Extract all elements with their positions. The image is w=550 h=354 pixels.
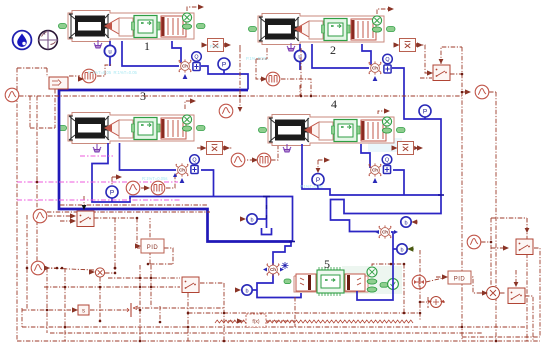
net switch2 top [526,218,528,232]
net mult2 io [478,292,506,294]
net psrc1 out [69,65,112,76]
net v30 [30,89,55,128]
net v47 [46,268,48,333]
magenta shaft line y200 [17,199,180,201]
net v527 [526,218,528,341]
net xy box io [228,320,295,322]
junction ticks on blue lines [263,195,444,242]
net long y96 [19,95,462,97]
net v37 [36,96,38,268]
multiplier2 circle [487,287,500,300]
unit 5 double-acting cylinder [284,267,368,296]
svg-text:5: 5 [324,257,330,271]
wire u1 stem [109,41,111,66]
net v140 [139,265,141,341]
P1 pressure gauge [218,58,230,70]
u2 sensor [294,50,305,61]
net unit4 top arrow [378,111,388,114]
net psrc2 out [281,79,311,96]
wire unit3 outlet B [120,143,177,170]
divider cluster circle [428,297,444,308]
net switch3 right [525,296,533,341]
PID1 controller [135,239,164,253]
wire b5 stub [253,289,257,291]
plot/cross icon [38,31,58,50]
net mult out [105,218,115,273]
svg-text:u: u [108,50,111,56]
net unit3 top arrow [185,101,194,109]
wire unit4 flow to node [393,170,404,195]
red arrows on signal lines [198,4,204,9]
highlight tint unit4 right [368,138,402,152]
net swbox4 right [200,282,224,284]
net v462 [461,47,463,341]
Ch1 orifice [178,59,192,72]
piecewise source pw1 [82,69,96,83]
net v224 [223,283,225,341]
svg-text:b: b [245,289,248,295]
net switch2 right [462,248,540,337]
wire Ch6 to unit5 right port [357,232,393,300]
wire unit3 flow to node [201,170,214,197]
net v420 [419,250,421,321]
net xbar1 io [239,45,241,111]
b6 sensor [401,217,411,227]
Q1 sensor stack [192,52,202,71]
svg-text:P.1%: P.1% [210,44,220,49]
net divider cluster [420,297,445,308]
magenta shaft line y182 [17,181,178,183]
net v100 [99,277,101,321]
waveform source ws2 [31,261,45,275]
piecewise source pw4 [257,153,271,167]
net psrc2 feed [256,48,267,79]
Ch4 orifice [368,163,382,176]
sawtooth segment [215,320,413,323]
b3 arrow [240,216,246,221]
wire unit2 flow down right [331,68,442,232]
svg-text:b: b [400,248,403,254]
unit5 attach pills [367,279,377,284]
net switch3 top [515,270,517,286]
net v22 [21,308,23,327]
wire unit3 outlet A [92,143,293,242]
svg-text:PID: PID [147,245,159,251]
svg-text:P.1%..R1%..: P.1%..R1%.. [246,56,269,61]
net switch1 top [441,47,462,64]
svg-text:b: b [250,218,253,224]
waveform source ws1 [33,209,47,223]
net bottom y333 [50,332,483,334]
switch1 relay [433,65,450,81]
net v496 [495,92,497,341]
unit5 speed sensor circle [388,279,399,290]
svg-text:P:1%T=0.05 R:1%T=0.05: P:1%T=0.05 R:1%T=0.05 [88,70,138,75]
b4 sensor [397,244,407,254]
wire u2 stem [299,44,301,70]
torque source circle [412,275,426,289]
net unit5 attach row y264 [372,264,404,313]
switch4 relay [182,277,199,293]
net bottom y327 [22,326,527,328]
unit 2 compressor [249,14,396,45]
b3 sensor [247,214,257,224]
net P3 probe [112,177,120,185]
net v17 left boundary [16,68,18,341]
net P4 probe [318,160,328,172]
waveform source ws0 top-left [5,88,19,102]
multiplier circle [95,268,104,277]
wire P1 stem [223,70,225,74]
net unit1 top arrow [187,7,202,11]
net unit2 motor tap [300,48,302,96]
net mid bundle y205 [60,204,207,206]
b5 sensor [242,285,252,295]
net unit2 top arrow [377,9,392,14]
Ch3 orifice [175,163,189,176]
highlight tint behind unit5 right attachments [342,266,402,294]
PID2 controller [442,271,471,284]
unit 4 compressor [259,115,406,146]
net box0 feed [17,68,47,77]
wire Ch5 to unit5 bottom [257,274,301,298]
net xbar2 to switch1 [416,45,431,73]
wire b4 stub [393,248,397,250]
tank cup [262,228,272,235]
xbar4 transmitter [392,142,418,155]
Ch5 orifice feed of unit5 [266,263,280,276]
svg-text:f(x): f(x) [252,319,260,325]
piecewise source pw2 [266,72,280,86]
net sbox row [22,308,224,310]
net bottom y341 [17,340,540,342]
Q2 sensor stack [383,54,393,73]
b4 arrow [408,247,414,251]
piecewise source pw3 [151,181,165,195]
unit 1 compressor [59,11,206,42]
blue arrow under Ch1 [183,74,188,79]
svg-text:P: P [423,109,427,116]
net switch1 left-lower [420,77,432,79]
net v188 [187,293,189,341]
b6 arrow [412,220,418,224]
svg-text:s: s [82,309,85,315]
P4 pressure gauge [312,174,324,186]
svg-text:4: 4 [331,97,337,111]
svg-text:PID: PID [454,276,466,282]
wire unit1 outlet B [172,41,181,63]
waveform source ws4a [231,153,245,167]
waveform source ws6 right [467,235,481,249]
fluid properties icon [13,31,32,50]
switch3 relay [508,288,525,304]
wire unit1 flow to node [201,66,248,90]
ground tank unit3 [93,144,101,152]
blue arrow under Ch4 [373,178,378,183]
b5 arrow [235,287,241,292]
net switch0 top [83,196,85,210]
Ch2 orifice [368,61,382,74]
wire feed unit5 left [273,242,291,266]
Ch6 orifice right line [378,225,392,238]
lever block [124,303,138,317]
down arrow net ends [238,107,243,112]
svg-text:P: P [110,190,114,197]
net ws0 row y216 [48,216,137,248]
net unit4 sig v [299,85,301,96]
svg-text:b: b [404,221,407,227]
signal box0 valve-command [49,77,68,89]
ground tank unit4 [283,144,291,152]
ground tank unit1 [94,40,102,48]
net switch1 right [450,73,462,75]
wire P4 stem [317,186,319,189]
net v151 [150,265,152,307]
net h287 [44,286,180,288]
P2 pressure gauge [419,105,431,117]
waveform source ws5 right [475,85,489,99]
wire vent branch [266,197,268,229]
svg-text:P: P [222,62,226,69]
net v165 [159,306,161,322]
net bottom y313 [188,312,420,314]
xbar2 transmitter [394,39,420,52]
net switch2 left [491,247,508,249]
net xbar4 io [416,147,421,149]
net h278 [108,277,180,279]
xy function box dashed [246,314,266,327]
wire P3 stem [111,198,113,202]
net v65 [64,268,66,341]
integrator s box [78,305,89,315]
net mid bundle y212 [38,211,210,213]
net torque to pid2 [426,278,443,282]
net v295 [294,297,296,327]
u1 sensor [104,45,115,56]
wire unit2 outlet A [312,44,369,68]
net xbar3 io [197,147,232,149]
wire unit4 outlet B [361,144,370,168]
wire unit4 outlet A [302,144,441,195]
net ws6 out [481,241,491,243]
svg-text:P: P [316,177,320,184]
blue star arrows near Ch5/Ch6 [263,268,267,272]
blue arrow under Ch3 [180,178,185,183]
cyan annotation texts [88,44,323,189]
xbar3 transmitter [201,142,227,155]
Q3 sensor stack [190,155,200,174]
switch0 relay [77,211,94,227]
svg-text:1: 1 [144,39,150,53]
net ws5 io [462,91,496,93]
blue asterisk near 5 [282,262,289,269]
magenta shaft line y156 [80,155,113,157]
switch2 relay [516,239,533,255]
unit5 stub pill [380,283,388,288]
net ws3a feed pair [141,176,175,188]
waveform source ws3a [126,181,140,195]
svg-text:2: 2 [330,43,336,57]
net ws1 row y268 [45,268,94,270]
unit5 attach x-circle [367,267,377,277]
main collector thick line [59,90,292,242]
wire b3 stub [257,218,267,220]
unit 3 compressor [59,113,206,144]
svg-text:R:1%T=0.05s: R:1%T=0.05s [142,176,168,181]
wire unit1 outlet A [122,41,179,66]
net right y218 [491,217,527,219]
wire unit2 outlet B [362,44,371,65]
svg-text:P.1%T=0.05: P.1%T=0.05 [300,184,323,189]
wire P2 stem [424,117,426,119]
waveform source ws3 mid [219,104,233,118]
net v491 [490,218,492,286]
net pid2 io [436,277,485,293]
blue arrow under Ch2 [373,76,378,81]
xbar1 transmitter [202,39,228,52]
net pid1 io [137,218,173,264]
net v27 [26,215,28,310]
net switch0 left2 [60,220,74,222]
net ws4a feed pair [232,146,278,160]
Q4 sensor stack [382,155,392,174]
ground tank unit2 [287,43,295,51]
P3 pressure gauge [106,186,118,198]
